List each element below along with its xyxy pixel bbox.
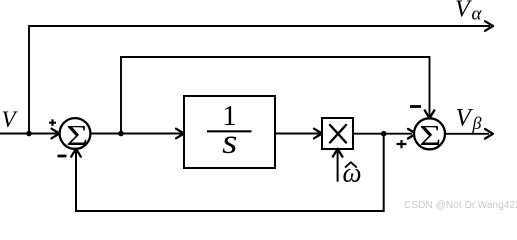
- plus sign at summer S1 left input: [49, 119, 56, 126]
- node Vbeta output label: [456, 105, 482, 133]
- node C junction dot (branch to feedback): [381, 131, 387, 137]
- summer S1 (left sigma adder): [60, 118, 91, 152]
- wire node B up and across and down to summer S2 top: [121, 57, 430, 134]
- svg-text:V: V: [456, 105, 474, 132]
- svg-text:α: α: [472, 4, 483, 25]
- minus sign at summer S1 bottom input: [58, 155, 67, 158]
- wire multiplier M1 to summer S2: [353, 133, 412, 135]
- svg-text:V: V: [2, 107, 19, 132]
- node B junction dot (branch to summer S2 top): [118, 131, 124, 137]
- arrowhead into integrator U1: [176, 129, 184, 139]
- arrowhead into multiplier M1: [314, 129, 322, 139]
- node A junction dot (input branch to Valpha): [26, 131, 32, 137]
- arrowhead into multiplier M1 bottom: [333, 149, 343, 157]
- svg-text:s: s: [222, 123, 237, 162]
- arrowhead Valpha output: [485, 21, 493, 31]
- wire integrator U1 to multiplier M1: [275, 133, 320, 135]
- wire node A up and across to Valpha output: [29, 26, 490, 134]
- integrator U1 block 1/s: [184, 96, 275, 168]
- arrowhead into summer S1 bottom: [71, 149, 81, 157]
- summer S2 (right sigma adder): [414, 118, 445, 152]
- wire omega-hat input to multiplier M1 bottom: [337, 151, 339, 182]
- multiplier M1 block (x): [322, 118, 353, 149]
- svg-text:CSDN @Not Dr.Wang422: CSDN @Not Dr.Wang422: [404, 200, 517, 211]
- svg-text:V: V: [455, 0, 472, 23]
- wire summer S2 to Vbeta output: [445, 133, 489, 135]
- svg-text:Σ: Σ: [66, 120, 88, 152]
- node Valpha output label: [455, 0, 483, 25]
- wire input V to summer S1: [0, 133, 57, 135]
- minus sign at summer S2 top input: [410, 105, 421, 108]
- plus sign at summer S2 left input: [397, 140, 407, 148]
- svg-text:Σ: Σ: [419, 120, 441, 152]
- arrowhead into summer S2 left: [408, 129, 416, 139]
- arrowhead into summer S2 top: [425, 110, 435, 118]
- svg-text:β: β: [472, 113, 482, 133]
- node omega-hat label: [343, 158, 362, 188]
- arrowhead Vbeta output: [485, 129, 493, 139]
- wire feedback node C down across bottom and up to summer S1 bottom: [76, 134, 384, 211]
- arrowhead into summer S1 left: [52, 129, 60, 139]
- wire summer S1 to integrator U1: [91, 133, 183, 135]
